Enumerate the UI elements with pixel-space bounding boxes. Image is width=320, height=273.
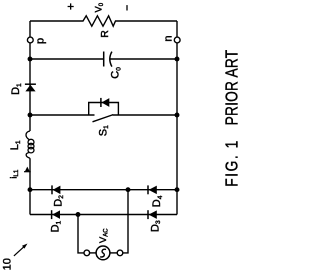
- svg-text:D1: D1: [50, 220, 63, 232]
- svg-text:D2: D2: [52, 195, 65, 207]
- svg-text:D4: D4: [151, 195, 164, 207]
- svg-text:FIG. 1: FIG. 1: [223, 139, 240, 187]
- svg-text:L1: L1: [9, 140, 22, 150]
- svg-text:VAC: VAC: [98, 228, 110, 243]
- svg-text:n: n: [163, 35, 175, 41]
- svg-text:C0: C0: [110, 67, 123, 79]
- svg-text:iL1: iL1: [8, 169, 20, 179]
- svg-text:V0: V0: [93, 2, 105, 12]
- svg-text:S1: S1: [97, 125, 110, 136]
- svg-text:D1: D1: [10, 83, 23, 95]
- svg-text:PRIOR ART: PRIOR ART: [223, 50, 240, 126]
- svg-text:D3: D3: [149, 220, 162, 232]
- svg-text:p: p: [34, 38, 46, 44]
- svg-text:R: R: [99, 30, 111, 38]
- svg-text:10: 10: [2, 258, 14, 270]
